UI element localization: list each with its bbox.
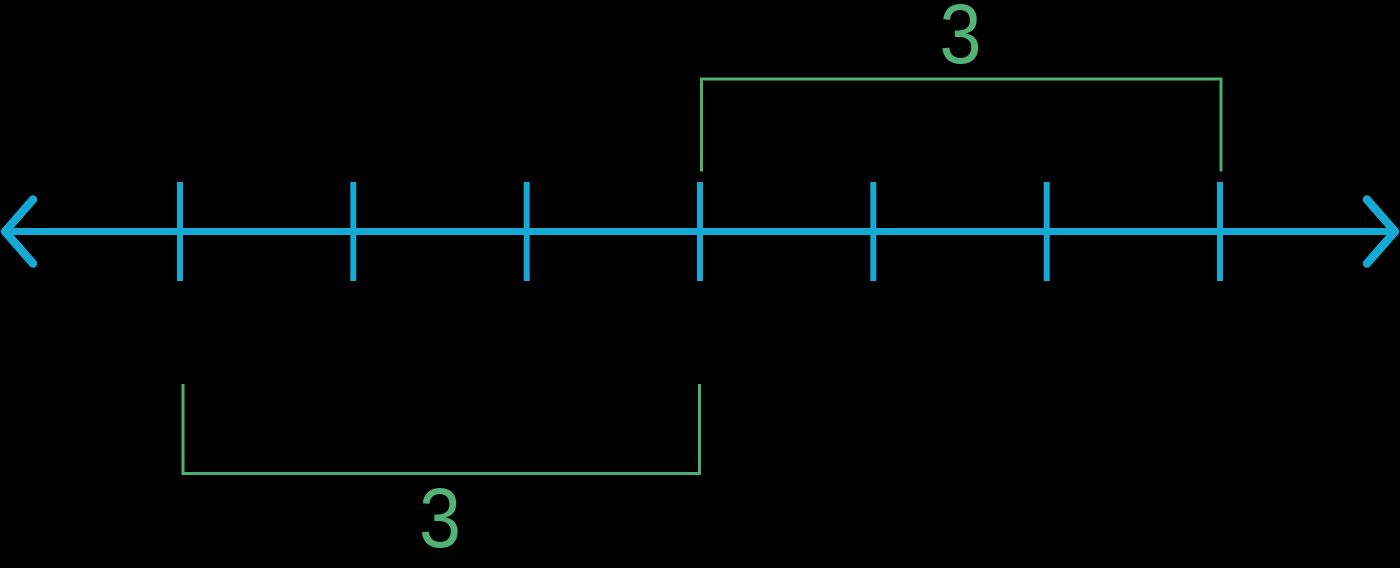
svg-text:3: 3	[419, 471, 461, 565]
tick 4	[697, 182, 703, 281]
tick 7	[1217, 182, 1223, 281]
number line axis	[4, 228, 1396, 235]
left arrowhead	[5, 200, 33, 264]
tick 5	[870, 182, 876, 281]
tick 1	[177, 182, 183, 281]
svg-text:3: 3	[940, 0, 982, 81]
tick 2	[350, 182, 356, 281]
bottom bracket (span ticks 1 to 4)	[183, 384, 700, 474]
tick 6	[1044, 182, 1050, 281]
right arrowhead	[1367, 200, 1395, 264]
tick 3	[524, 182, 530, 281]
top bracket (span ticks 4 to 7)	[702, 79, 1222, 172]
